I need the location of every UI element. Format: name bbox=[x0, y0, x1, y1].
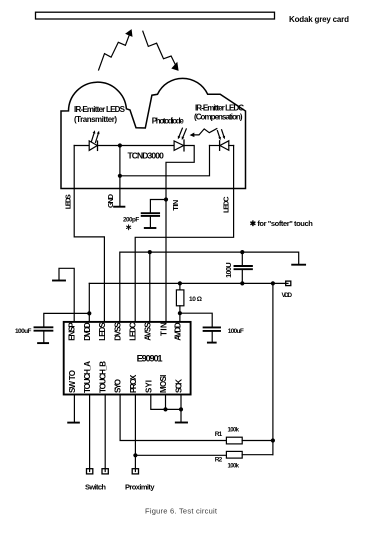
svg-text:TCND3000: TCND3000 bbox=[128, 151, 165, 161]
svg-text:Figure 6. Test circuit: Figure 6. Test circuit bbox=[145, 507, 218, 516]
svg-text:DVSS: DVSS bbox=[113, 322, 122, 341]
svg-text:VDD: VDD bbox=[282, 292, 293, 299]
svg-text:TIN: TIN bbox=[171, 200, 180, 211]
svg-text:TOUCH_A: TOUCH_A bbox=[83, 361, 92, 393]
svg-text:ENSP: ENSP bbox=[68, 322, 77, 341]
svg-text:SCK: SCK bbox=[175, 379, 184, 393]
svg-text:PROX: PROX bbox=[129, 374, 138, 393]
svg-text:SW TO: SW TO bbox=[68, 370, 77, 393]
svg-text:Kodak grey card: Kodak grey card bbox=[289, 15, 349, 24]
svg-text:TIN: TIN bbox=[160, 322, 169, 336]
svg-text:100k: 100k bbox=[228, 463, 240, 469]
svg-text:100U: 100U bbox=[224, 262, 233, 278]
svg-text:LEDS: LEDS bbox=[98, 322, 107, 341]
svg-text:Switch: Switch bbox=[85, 482, 106, 491]
svg-text:SYI: SYI bbox=[144, 380, 153, 393]
svg-text:DVDD: DVDD bbox=[83, 322, 92, 341]
svg-text:IR-Emitter LEDC: IR-Emitter LEDC bbox=[195, 103, 244, 112]
svg-text:✱ for "softer" touch: ✱ for "softer" touch bbox=[250, 219, 313, 228]
svg-text:GND: GND bbox=[106, 193, 115, 208]
svg-text:E90901: E90901 bbox=[137, 353, 163, 363]
svg-text:LEDS: LEDS bbox=[64, 194, 73, 209]
svg-text:TOUCH_B: TOUCH_B bbox=[99, 361, 108, 393]
svg-text:10 Ω: 10 Ω bbox=[189, 296, 202, 303]
svg-text:100uF: 100uF bbox=[15, 328, 32, 335]
svg-text:100uF: 100uF bbox=[228, 328, 244, 335]
svg-text:Photodiode: Photodiode bbox=[152, 116, 185, 125]
svg-text:SYO: SYO bbox=[114, 379, 123, 393]
svg-text:LEDC: LEDC bbox=[129, 322, 138, 341]
svg-text:Proximity: Proximity bbox=[125, 482, 155, 491]
svg-text:IR-Emitter LEDS: IR-Emitter LEDS bbox=[74, 105, 126, 114]
svg-text:200pF: 200pF bbox=[123, 216, 139, 223]
svg-text:AVSS: AVSS bbox=[143, 322, 152, 341]
svg-text:(Compensation): (Compensation) bbox=[194, 112, 243, 121]
svg-text:AVDD: AVDD bbox=[173, 322, 182, 341]
svg-text:100k: 100k bbox=[228, 427, 240, 433]
svg-text:LEDC: LEDC bbox=[221, 196, 230, 213]
svg-text:MOSI: MOSI bbox=[159, 375, 168, 393]
svg-text:R1: R1 bbox=[215, 431, 223, 438]
svg-text:(Transmitter): (Transmitter) bbox=[74, 115, 117, 124]
svg-text:R2: R2 bbox=[215, 456, 223, 463]
